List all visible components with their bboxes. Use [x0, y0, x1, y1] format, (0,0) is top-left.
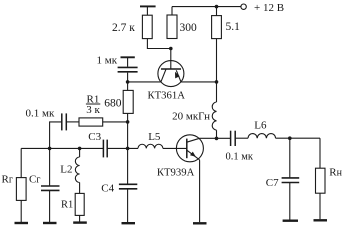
svg-text:R1: R1 — [61, 199, 73, 210]
svg-text:2.7 к: 2.7 к — [112, 22, 135, 34]
terminal T-bar above R 2.7k — [140, 6, 156, 15]
svg-text:C3: C3 — [88, 131, 101, 143]
wire 0.1uk branch corner — [50, 122, 62, 148]
svg-text:Cг: Cг — [29, 174, 40, 186]
svg-text:L6: L6 — [254, 120, 267, 132]
junction dot 680 / R1-3k — [126, 120, 130, 124]
svg-text:Rн: Rн — [329, 167, 342, 179]
resistor 300 — [167, 7, 197, 39]
ground under Rn — [314, 219, 328, 221]
svg-text:КТ939А: КТ939А — [157, 166, 195, 178]
junction dot collector node / coil — [215, 137, 219, 141]
svg-text:5.1: 5.1 — [226, 21, 241, 33]
top rail to +12V — [172, 6, 241, 8]
wire L5 to KT939A base — [163, 147, 187, 149]
svg-text:300: 300 — [180, 22, 198, 34]
wire 5.1 down to collector node — [216, 39, 218, 102]
svg-text:L2: L2 — [60, 164, 72, 176]
transistor U2 KT939A (NPN) — [157, 135, 204, 179]
resistor 5.1 — [212, 7, 241, 39]
main wire left section — [21, 147, 103, 149]
capacitor C4 — [101, 148, 137, 222]
svg-text:+ 12 В: + 12 В — [254, 2, 284, 14]
wire 680 down through junctions — [127, 113, 129, 148]
junction dot KT361A right wire — [215, 80, 219, 84]
ground under Rg — [15, 222, 29, 224]
wire collector to 0.1uk — [200, 137, 231, 139]
inductor L5 — [138, 131, 163, 149]
svg-text:C4: C4 — [101, 183, 114, 195]
ground under Cg — [43, 222, 57, 224]
wire R1 3k to 680 node — [103, 121, 128, 123]
svg-text:0.1 мк: 0.1 мк — [26, 108, 55, 120]
svg-text:20 мкГн: 20 мкГн — [172, 111, 210, 123]
transistor U1 KT361A (PNP) — [148, 49, 186, 102]
wire cap to R1 3k — [66, 121, 79, 123]
capacitor 0.1uk (right) — [226, 131, 254, 163]
inductor L2 — [60, 148, 79, 182]
junction dot C4 rail — [126, 147, 130, 151]
wire 1uk to node — [127, 73, 129, 91]
junction dot base node of KT361A — [169, 47, 173, 51]
capacitor C3 — [88, 131, 107, 158]
ground under C7 — [283, 219, 298, 221]
junction dot L2 branch — [78, 147, 82, 151]
junction dot collector node — [126, 80, 130, 84]
terminal T-bar above 1uk — [121, 57, 135, 67]
wire KT361A collector to C-1uk node — [128, 81, 161, 83]
svg-text:L5: L5 — [148, 131, 161, 143]
inductor 20uH (vertical coil) — [172, 102, 216, 130]
ground under C4 — [122, 222, 136, 224]
wire C3 to L5 — [107, 147, 138, 149]
capacitor C7 — [266, 138, 299, 219]
ground under KT939A — [193, 222, 207, 224]
capacitor 0.1uk (left) — [26, 108, 67, 131]
junction dot top rail / 5.1 — [215, 5, 219, 9]
svg-text:КТ361А: КТ361А — [148, 90, 186, 102]
ground under R1 — [73, 221, 87, 223]
junction dot Cg branch — [48, 147, 52, 151]
wire KT361A emitter to 5.1 rail — [181, 81, 217, 83]
svg-text:1 мк: 1 мк — [97, 55, 118, 67]
wire L6 to output — [276, 137, 320, 139]
resistor Rn — [316, 138, 343, 219]
resistor R1 (vertical) — [61, 183, 84, 222]
junction dot C7 branch — [288, 136, 292, 140]
svg-text:C7: C7 — [266, 177, 279, 189]
wire 2.7k bottom to base node — [147, 39, 170, 49]
inductor L6 — [248, 120, 276, 139]
svg-text:680: 680 — [104, 98, 122, 110]
wire coil to collector wire — [216, 130, 218, 138]
resistor 2.7k — [112, 15, 152, 38]
wire cap to L6 — [235, 137, 248, 139]
svg-text:3 к: 3 к — [86, 104, 100, 116]
capacitor 1uk — [97, 55, 138, 72]
resistor Rg — [2, 148, 27, 222]
svg-text:0.1 мк: 0.1 мк — [226, 152, 254, 163]
+12V terminal — [241, 2, 284, 14]
resistor R1 3k (horizontal) — [79, 94, 103, 127]
capacitor Cg — [29, 148, 60, 222]
svg-text:Rг: Rг — [2, 174, 13, 186]
resistor 680 — [104, 90, 133, 113]
wire KT939A emitter down — [199, 160, 201, 222]
